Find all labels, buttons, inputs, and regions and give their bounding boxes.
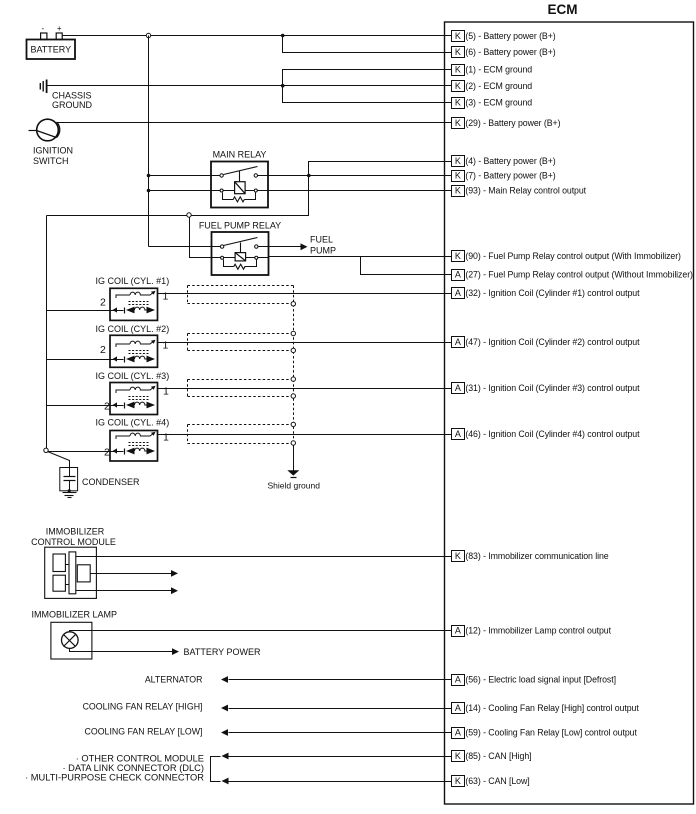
svg-text:A: A: [455, 337, 461, 347]
svg-text:A: A: [455, 626, 461, 636]
svg-text:1: 1: [163, 340, 169, 352]
svg-text:(29) - Battery power (B+): (29) - Battery power (B+): [465, 118, 560, 128]
svg-text:A: A: [455, 288, 461, 298]
svg-text:(46) - Ignition Coil (Cylinder: (46) - Ignition Coil (Cylinder #4) contr…: [465, 429, 640, 439]
svg-text:(83) - Immobilizer communicati: (83) - Immobilizer communication line: [465, 551, 608, 561]
svg-text:· OTHER CONTROL MODULE: · OTHER CONTROL MODULE: [76, 753, 204, 763]
svg-text:(5) - Battery power (B+): (5) - Battery power (B+): [465, 31, 555, 41]
svg-text:FUEL PUMP RELAY: FUEL PUMP RELAY: [199, 221, 281, 231]
svg-text:K: K: [455, 118, 461, 128]
svg-text:Shield ground: Shield ground: [268, 481, 321, 491]
svg-text:· MULTI-PURPOSE CHECK CONNECTO: · MULTI-PURPOSE CHECK CONNECTOR: [25, 772, 204, 782]
svg-text:2: 2: [100, 297, 106, 309]
svg-text:(93) - Main Relay control outp: (93) - Main Relay control output: [465, 186, 586, 196]
svg-text:BATTERY POWER: BATTERY POWER: [184, 647, 262, 657]
svg-text:2: 2: [104, 401, 110, 413]
svg-text:COOLING FAN RELAY [LOW]: COOLING FAN RELAY [LOW]: [85, 727, 203, 737]
svg-text:(3) - ECM ground: (3) - ECM ground: [465, 98, 532, 108]
svg-text:PUMP: PUMP: [310, 245, 336, 255]
svg-text:SWITCH: SWITCH: [33, 156, 69, 166]
svg-text:K: K: [455, 171, 461, 181]
svg-text:A: A: [455, 675, 461, 685]
svg-text:IMMOBILIZER: IMMOBILIZER: [46, 527, 105, 537]
svg-text:(90) - Fuel Pump Relay control: (90) - Fuel Pump Relay control output (W…: [465, 251, 681, 261]
svg-text:(1) - ECM ground: (1) - ECM ground: [465, 65, 532, 75]
svg-text:(7) - Battery power (B+): (7) - Battery power (B+): [465, 171, 555, 181]
svg-text:COOLING FAN RELAY [HIGH]: COOLING FAN RELAY [HIGH]: [83, 702, 203, 712]
svg-text:(63) - CAN [Low]: (63) - CAN [Low]: [465, 776, 529, 786]
svg-text:(59) - Cooling Fan Relay [Low]: (59) - Cooling Fan Relay [Low] control o…: [465, 728, 637, 738]
svg-text:(31) - Ignition Coil (Cylinder: (31) - Ignition Coil (Cylinder #3) contr…: [465, 383, 640, 393]
svg-text:K: K: [455, 31, 461, 41]
svg-text:K: K: [455, 156, 461, 166]
svg-text:(56) - Electric load signal in: (56) - Electric load signal input [Defro…: [465, 675, 616, 685]
svg-text:CHASSIS: CHASSIS: [52, 91, 92, 101]
svg-text:2: 2: [100, 344, 106, 356]
svg-text:(85) - CAN [High]: (85) - CAN [High]: [465, 751, 531, 761]
svg-text:IG COIL (CYL. #2): IG COIL (CYL. #2): [96, 324, 170, 334]
svg-text:FUEL: FUEL: [310, 235, 333, 245]
svg-text:K: K: [455, 47, 461, 57]
svg-text:K: K: [455, 751, 461, 761]
svg-text:GROUND: GROUND: [52, 100, 92, 110]
svg-text:(47) - Ignition Coil (Cylinder: (47) - Ignition Coil (Cylinder #2) contr…: [465, 337, 640, 347]
svg-text:(32) - Ignition Coil (Cylinder: (32) - Ignition Coil (Cylinder #1) contr…: [465, 288, 640, 298]
svg-text:IMMOBILIZER LAMP: IMMOBILIZER LAMP: [32, 610, 118, 620]
svg-text:(4) - Battery power (B+): (4) - Battery power (B+): [465, 156, 555, 166]
svg-text:A: A: [455, 383, 461, 393]
svg-text:IG COIL (CYL. #1): IG COIL (CYL. #1): [96, 276, 170, 286]
svg-text:K: K: [455, 776, 461, 786]
svg-text:(6) - Battery power (B+): (6) - Battery power (B+): [465, 47, 555, 57]
svg-text:K: K: [455, 65, 461, 75]
svg-text:-: -: [41, 24, 44, 33]
svg-text:A: A: [455, 703, 461, 713]
svg-text:BATTERY: BATTERY: [30, 45, 71, 55]
svg-text:K: K: [455, 98, 461, 108]
svg-text:A: A: [455, 270, 461, 280]
svg-text:1: 1: [163, 291, 169, 303]
svg-text:K: K: [455, 81, 461, 91]
svg-text:(14) - Cooling Fan Relay [High: (14) - Cooling Fan Relay [High] control …: [465, 703, 639, 713]
svg-text:IG COIL (CYL. #3): IG COIL (CYL. #3): [96, 371, 170, 381]
svg-text:1: 1: [163, 386, 169, 398]
svg-text:(27) - Fuel Pump Relay control: (27) - Fuel Pump Relay control output (W…: [465, 270, 693, 280]
svg-text:K: K: [455, 551, 461, 561]
svg-text:1: 1: [163, 432, 169, 444]
svg-text:· DATA LINK CONNECTOR (DLC): · DATA LINK CONNECTOR (DLC): [62, 763, 204, 773]
svg-text:CONTROL MODULE: CONTROL MODULE: [31, 537, 116, 547]
svg-text:(2) - ECM ground: (2) - ECM ground: [465, 81, 532, 91]
svg-text:IG COIL (CYL. #4): IG COIL (CYL. #4): [96, 418, 170, 428]
svg-text:K: K: [455, 186, 461, 196]
svg-text:(12) - Immobilizer Lamp contro: (12) - Immobilizer Lamp control output: [465, 626, 611, 636]
svg-text:IGNITION: IGNITION: [33, 146, 73, 156]
svg-text:ALTERNATOR: ALTERNATOR: [145, 675, 203, 685]
svg-text:+: +: [57, 24, 62, 33]
svg-text:ECM: ECM: [548, 2, 578, 17]
svg-text:MAIN RELAY: MAIN RELAY: [213, 150, 267, 160]
svg-text:2: 2: [104, 447, 110, 459]
svg-text:A: A: [455, 429, 461, 439]
svg-text:A: A: [455, 728, 461, 738]
svg-text:K: K: [455, 251, 461, 261]
svg-text:CONDENSER: CONDENSER: [82, 477, 140, 487]
